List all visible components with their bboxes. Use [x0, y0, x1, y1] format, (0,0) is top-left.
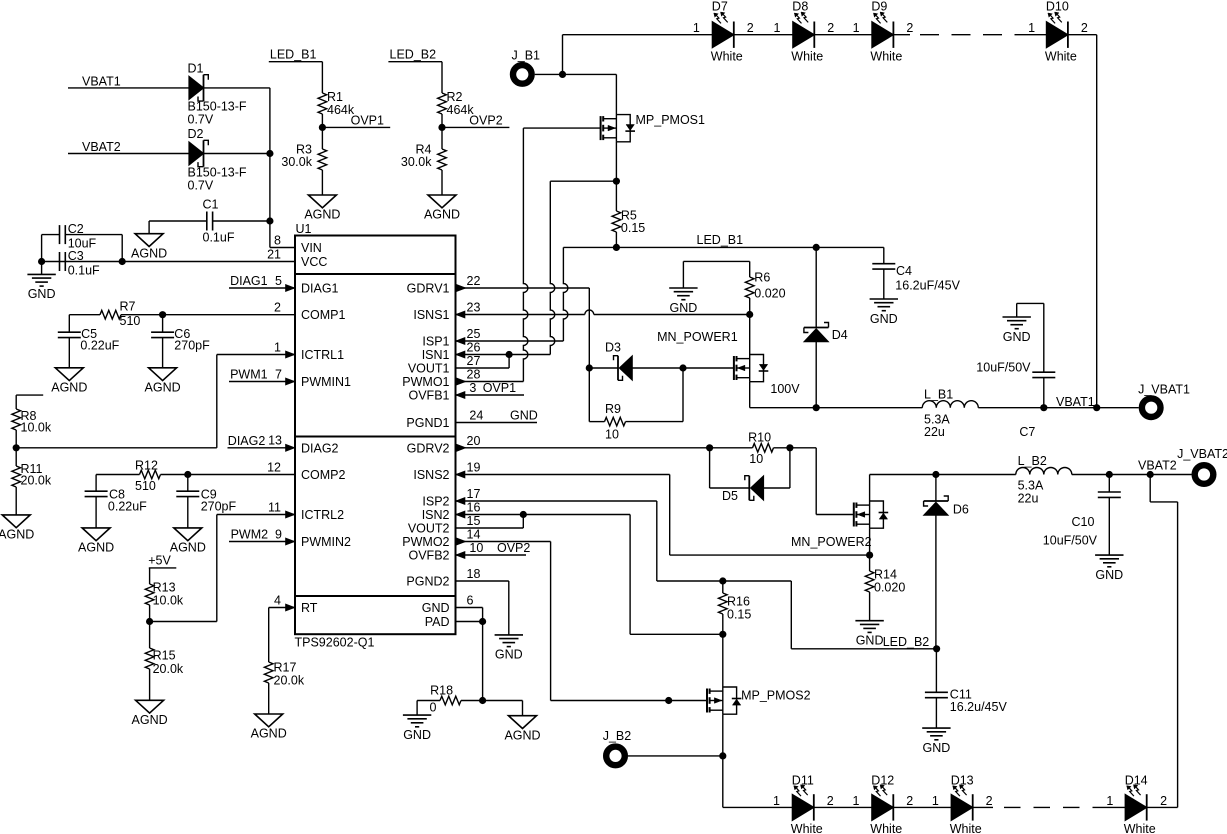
svg-text:24: 24 [469, 409, 483, 423]
junction MP_PMOS2 gate node [665, 697, 672, 704]
svg-text:1: 1 [274, 341, 281, 355]
transistor MN_POWER2 [853, 503, 855, 527]
svg-text:16.2u/45V: 16.2u/45V [950, 700, 1008, 714]
svg-text:VBAT1: VBAT1 [1056, 395, 1095, 409]
U1 input pin arrows left side [286, 284, 296, 291]
junction VBAT1 node [1093, 404, 1100, 411]
svg-text:GND: GND [856, 634, 884, 648]
dashed wire LED string 1 [920, 34, 1026, 36]
svg-text:PGND2: PGND2 [406, 575, 449, 589]
svg-text:AGND: AGND [0, 528, 34, 542]
svg-text:J_VBAT1: J_VBAT1 [1138, 383, 1190, 397]
svg-text:VOUT2: VOUT2 [408, 522, 450, 536]
wire VOUT1 [456, 367, 510, 369]
svg-text:AGND: AGND [145, 380, 181, 394]
svg-text:White: White [1045, 50, 1077, 64]
wire ICTRL1 [217, 354, 295, 356]
svg-text:R2: R2 [447, 90, 463, 104]
svg-text:6: 6 [467, 594, 474, 608]
svg-text:D10: D10 [1046, 0, 1069, 14]
svg-text:PWMO2: PWMO2 [402, 535, 449, 549]
svg-text:2: 2 [827, 794, 834, 808]
svg-text:0.22uF: 0.22uF [80, 339, 119, 353]
junction R13/R15 [146, 618, 153, 625]
svg-text:R10: R10 [748, 430, 771, 444]
resistor R3 [321, 127, 323, 149]
svg-text:PWMO1: PWMO1 [402, 375, 449, 389]
transistor MP_PMOS2 [706, 689, 708, 713]
junction VBAT2 node [1147, 471, 1154, 478]
wire R12 to COMP2 pin [161, 474, 296, 476]
LED D12 [872, 794, 894, 820]
resistor R18 [417, 700, 440, 702]
connector J_VBAT1 [1142, 398, 1161, 417]
svg-text:OVP1: OVP1 [483, 381, 516, 395]
svg-text:0.15: 0.15 [621, 221, 645, 235]
diode D4 [804, 327, 829, 329]
wire PAD to R18 node [482, 622, 484, 701]
svg-text:1: 1 [932, 794, 939, 808]
connector J_B2 [606, 747, 625, 766]
svg-text:ICTRL1: ICTRL1 [301, 348, 344, 362]
wire D3 cathode [589, 367, 618, 369]
svg-text:GND: GND [1095, 568, 1123, 582]
capacitor C10 [1108, 475, 1110, 493]
svg-text:PAD: PAD [425, 615, 450, 629]
svg-text:D1: D1 [188, 62, 204, 76]
transistor MN_POWER1 [733, 356, 735, 380]
svg-text:0.020: 0.020 [754, 287, 785, 301]
inductor L_B2 [936, 474, 1016, 476]
wire VBAT2 to LED string 2 return [1149, 475, 1151, 502]
junction source / R14 / ISNS2 [866, 552, 873, 559]
GND symbol at C4 [870, 298, 898, 300]
wire COMP2 left [96, 474, 139, 476]
junction R8/R11 [13, 444, 20, 451]
LED D10 [1046, 22, 1068, 48]
svg-text:PWMIN1: PWMIN1 [301, 375, 351, 389]
svg-text:510: 510 [135, 479, 156, 493]
LED D9 [872, 22, 894, 48]
AGND symbol at R15 [136, 700, 164, 713]
svg-text:0.1uF: 0.1uF [68, 264, 100, 278]
AGND symbol near PAD [509, 716, 537, 729]
svg-text:AGND: AGND [170, 541, 206, 555]
resistor R8 top stub [16, 394, 43, 396]
svg-text:VOUT1: VOUT1 [408, 362, 450, 376]
capacitor C11 [925, 691, 948, 693]
svg-text:B150-13-F: B150-13-F [188, 166, 247, 180]
svg-text:19: 19 [467, 461, 481, 475]
wire ISN2 to R16 bottom [629, 515, 631, 635]
svg-text:OVP1: OVP1 [351, 114, 384, 128]
capacitor C4 [883, 247, 885, 263]
transistor MP_PMOS1 [600, 116, 602, 140]
GND symbol at R6 [669, 287, 697, 289]
wire ICTRL2 [217, 514, 295, 516]
diode D3 [617, 356, 619, 381]
svg-text:30.0k: 30.0k [401, 155, 432, 169]
svg-text:LED_B2: LED_B2 [390, 48, 437, 62]
AGND symbol at C5 [55, 368, 83, 381]
resistor R9 [589, 421, 604, 423]
svg-text:22: 22 [467, 274, 481, 288]
svg-text:C7: C7 [1019, 425, 1035, 439]
svg-text:AGND: AGND [251, 727, 287, 741]
svg-text:100V: 100V [770, 382, 800, 396]
junction J_B2 node [719, 752, 726, 759]
wire ISNS2 [456, 474, 670, 476]
svg-text:2: 2 [986, 794, 993, 808]
LED D8 [793, 22, 815, 48]
svg-text:White: White [870, 50, 902, 64]
svg-text:PWM1: PWM1 [230, 368, 268, 382]
svg-text:26: 26 [467, 341, 481, 355]
GND symbol at C7 [1003, 316, 1031, 318]
svg-text:J_B2: J_B2 [603, 729, 632, 743]
GND symbol at R14 [855, 620, 883, 622]
svg-text:PWMIN2: PWMIN2 [301, 535, 351, 549]
wire R18 node to AGND [483, 700, 523, 702]
svg-text:LED_B1: LED_B1 [270, 48, 317, 62]
svg-text:0.7V: 0.7V [188, 113, 214, 127]
svg-text:RT: RT [301, 601, 318, 615]
svg-text:C4: C4 [896, 264, 912, 278]
diode D5 [748, 476, 750, 501]
wire LED_B2 net [723, 580, 792, 582]
capacitor C8 [95, 475, 97, 492]
junction R10 left [706, 444, 713, 451]
svg-text:VBAT2: VBAT2 [1138, 459, 1177, 473]
junction ISNS1 / R6 / drain [746, 311, 753, 318]
svg-text:DIAG1: DIAG1 [230, 274, 268, 288]
svg-text:13: 13 [268, 434, 282, 448]
svg-text:20.0k: 20.0k [274, 674, 305, 688]
svg-text:ISP1: ISP1 [422, 335, 449, 349]
svg-text:AGND: AGND [132, 713, 168, 727]
diode D6 [924, 500, 949, 502]
wire GND pin 6 [456, 607, 483, 609]
svg-text:GND: GND [510, 409, 538, 423]
svg-text:2: 2 [906, 21, 913, 35]
LED D14 [1125, 794, 1147, 820]
svg-text:GND: GND [422, 601, 450, 615]
svg-text:MN_POWER1: MN_POWER1 [657, 330, 738, 344]
svg-text:20.0k: 20.0k [21, 474, 52, 488]
wire D4 cathode to LED_B1 [815, 247, 817, 327]
svg-text:White: White [791, 50, 823, 64]
junction switch node / D4 [813, 404, 820, 411]
svg-text:ISNS2: ISNS2 [413, 468, 449, 482]
net label OVP2 at OVFB2 [456, 554, 527, 556]
svg-text:14: 14 [467, 528, 481, 542]
svg-text:9: 9 [275, 527, 282, 541]
resistor R11 [15, 448, 17, 466]
wire J_B1 node to LED string [562, 35, 564, 75]
AGND symbol at R11 [2, 515, 30, 528]
svg-text:1: 1 [853, 21, 860, 35]
svg-text:10: 10 [469, 541, 483, 555]
svg-text:30.0k: 30.0k [281, 155, 312, 169]
resistor R7 [100, 310, 121, 319]
diode D2 [189, 142, 204, 165]
svg-text:0.15: 0.15 [727, 608, 751, 622]
wire D5 loop [709, 448, 711, 488]
svg-text:D4: D4 [832, 328, 848, 342]
wire GDRV1 riser to R9/D3 [588, 288, 590, 422]
svg-text:28: 28 [467, 368, 481, 382]
junction C7 [1040, 404, 1047, 411]
svg-text:White: White [870, 822, 902, 834]
capacitor C2 [59, 225, 61, 244]
wire D12 to D13 [893, 806, 951, 808]
svg-text:VBAT1: VBAT1 [82, 74, 121, 88]
svg-text:L_B2: L_B2 [1018, 454, 1047, 468]
svg-text:AGND: AGND [504, 728, 540, 742]
svg-text:0.020: 0.020 [874, 581, 905, 595]
wire MP_PMOS1 drain to R5 [615, 142, 617, 181]
svg-text:5: 5 [275, 274, 282, 288]
AGND symbol at C8 [82, 528, 110, 541]
svg-text:18: 18 [467, 567, 481, 581]
wire PWMO1 riser to MP_PMOS1 gate [523, 128, 528, 381]
svg-text:U1: U1 [296, 222, 312, 236]
svg-text:GDRV1: GDRV1 [407, 282, 450, 296]
wire LED string 1 return [1096, 35, 1098, 408]
wire D2 cathode to VIN rail [204, 153, 270, 155]
svg-text:2: 2 [1160, 794, 1167, 808]
junction VIN rail / C1 [266, 217, 273, 224]
svg-text:10: 10 [749, 452, 763, 466]
net label GND at PGND1 [456, 422, 538, 424]
svg-text:2: 2 [827, 21, 834, 35]
svg-text:1: 1 [1106, 794, 1113, 808]
svg-text:PWM2: PWM2 [231, 528, 269, 542]
svg-text:10.0k: 10.0k [153, 593, 184, 607]
GND symbol at C10 [1095, 554, 1123, 556]
svg-text:0.22uF: 0.22uF [108, 500, 147, 514]
resistor R15 [149, 622, 151, 649]
svg-text:R9: R9 [605, 402, 621, 416]
svg-text:GND: GND [1003, 330, 1031, 344]
svg-text:OVFB1: OVFB1 [409, 389, 450, 403]
svg-text:2: 2 [274, 301, 281, 315]
wire net LED_B1 [563, 246, 883, 248]
svg-text:0.1uF: 0.1uF [203, 231, 235, 245]
LED D13 [951, 794, 973, 820]
wire D9 to dashes [893, 34, 910, 36]
resistor R10 [753, 444, 774, 453]
svg-text:R1: R1 [327, 90, 343, 104]
svg-text:COMP1: COMP1 [301, 308, 346, 322]
wire gate node to MP_PMOS2 [669, 700, 707, 702]
svg-text:1: 1 [1028, 21, 1035, 35]
wire DIAG2 net to ICTRL1 [16, 447, 217, 449]
AGND symbol at R17 [255, 714, 283, 727]
junction C3 right / VCC [119, 258, 126, 265]
svg-text:R18: R18 [430, 684, 453, 698]
wire MP_PMOS1 gate [523, 127, 600, 129]
svg-text:ISNS1: ISNS1 [413, 308, 449, 322]
svg-text:OVP2: OVP2 [497, 541, 530, 555]
svg-text:D7: D7 [712, 0, 728, 14]
AGND symbol at R4 [428, 195, 456, 208]
wire C7 to GND [1017, 302, 1044, 304]
svg-text:White: White [950, 822, 982, 834]
resistor R1 [321, 62, 323, 93]
wire ISP1 riser to LED_B1 [563, 247, 568, 341]
net label OVP2 stub [442, 126, 509, 128]
svg-text:COMP2: COMP2 [301, 468, 346, 482]
svg-text:15: 15 [467, 514, 481, 528]
wire C1 right to VIN rail [213, 220, 270, 222]
svg-text:R14: R14 [874, 567, 897, 581]
svg-text:16: 16 [467, 501, 481, 515]
svg-text:10uF/50V: 10uF/50V [1043, 533, 1098, 547]
wire J_B2 to node [628, 755, 723, 757]
wire D11 to D12 [814, 806, 872, 808]
svg-text:20: 20 [467, 434, 481, 448]
svg-text:10: 10 [605, 428, 619, 442]
wire LED string 1 top [563, 34, 713, 36]
wire D1 cathode to VIN rail [204, 87, 270, 89]
wire R18 to GND [416, 701, 418, 716]
svg-text:R6: R6 [754, 271, 770, 285]
GND symbol at PGND2 [495, 634, 523, 636]
dashed wire LED string 2 [1004, 806, 1098, 808]
svg-text:1: 1 [693, 21, 700, 35]
svg-text:J_B1: J_B1 [512, 48, 541, 62]
capacitor C1 [206, 212, 208, 231]
junction D3 cathode on GDRV1 riser [586, 364, 593, 371]
junction ISN2/VOUT2 [520, 511, 527, 518]
resistor R5 [615, 181, 617, 211]
svg-text:LED_B2: LED_B2 [883, 635, 930, 649]
LED D7 [712, 22, 734, 48]
wire D10 to return [1068, 34, 1097, 36]
wire MN_POWER2 drain to switch node 2 [869, 475, 871, 502]
svg-text:VBAT2: VBAT2 [82, 140, 121, 154]
svg-text:2: 2 [1081, 21, 1088, 35]
svg-text:White: White [711, 50, 743, 64]
wire GDRV1 [456, 287, 590, 289]
svg-text:GDRV2: GDRV2 [407, 441, 450, 455]
junction ISN1/VOUT1 [506, 351, 513, 358]
svg-text:PGND1: PGND1 [406, 416, 449, 430]
inductor L_B1 [816, 407, 922, 409]
capacitor C5 [68, 315, 70, 333]
wire D6 cathode to switch node 2 [935, 475, 937, 502]
AGND symbol at C9 [174, 528, 202, 541]
svg-text:R15: R15 [153, 648, 176, 662]
svg-text:2: 2 [906, 794, 913, 808]
wire J_B1 to PMOS1 [535, 73, 617, 75]
GND symbol at C2/C3 [27, 273, 55, 275]
junction R16 top [719, 577, 726, 584]
svg-text:LED_B1: LED_B1 [697, 233, 744, 247]
svg-text:GND: GND [28, 287, 56, 301]
resistor R12 [140, 470, 161, 479]
wire R10 leads [710, 447, 753, 449]
GND symbol at R18 [403, 714, 431, 716]
wire PWMO2 to MP_PMOS2 gate [456, 541, 551, 543]
svg-text:OVP2: OVP2 [469, 114, 502, 128]
resistor R6 [749, 261, 751, 277]
svg-text:DIAG2: DIAG2 [301, 441, 339, 455]
svg-text:MP_PMOS2: MP_PMOS2 [741, 689, 811, 703]
svg-text:C1: C1 [203, 198, 219, 212]
svg-text:17: 17 [467, 487, 481, 501]
svg-text:AGND: AGND [78, 541, 114, 555]
wire R16 bottom to MP_PMOS2 source [722, 634, 724, 687]
svg-text:ISN2: ISN2 [422, 508, 450, 522]
svg-text:OVFB2: OVFB2 [409, 549, 450, 563]
wire D4 anode to switch node [815, 342, 817, 408]
wire VOUT2 [456, 527, 524, 529]
svg-text:10uF/50V: 10uF/50V [976, 360, 1031, 374]
junction R16 bottom [719, 631, 726, 638]
svg-text:VCC: VCC [301, 255, 327, 269]
IC U1 TPS92602-Q1 body [295, 236, 456, 635]
svg-text:GND: GND [923, 741, 951, 755]
svg-text:C10: C10 [1072, 515, 1095, 529]
capacitor C7 [1032, 371, 1055, 373]
svg-text:GND: GND [495, 648, 523, 662]
svg-text:GND: GND [403, 728, 431, 742]
net label OVP1 stub [322, 126, 390, 128]
wire R9 to gate node [682, 368, 684, 422]
junction R18 node [479, 697, 486, 704]
svg-text:D12: D12 [871, 774, 894, 788]
junction LED_B1 / D4 [813, 244, 820, 251]
svg-text:0.7V: 0.7V [188, 179, 214, 193]
junction switch node 2 / D6 [932, 471, 939, 478]
wire R5 top to ISN1 riser [550, 180, 616, 182]
LED D11 [792, 794, 814, 820]
wire GDRV2 [456, 447, 710, 449]
wire D8 to D9 [814, 34, 872, 36]
svg-text:10.0k: 10.0k [21, 420, 52, 434]
svg-text:AGND: AGND [51, 380, 87, 394]
wire divider to ICTRL2 [150, 621, 217, 623]
resistor R14 [869, 555, 871, 571]
svg-text:8: 8 [274, 234, 281, 248]
svg-text:ICTRL2: ICTRL2 [301, 508, 344, 522]
svg-text:R7: R7 [120, 299, 136, 313]
svg-text:27: 27 [467, 354, 481, 368]
svg-text:D8: D8 [792, 0, 808, 14]
svg-text:21: 21 [267, 248, 281, 262]
wire dashes to D10 [1026, 34, 1046, 36]
svg-text:MP_PMOS1: MP_PMOS1 [636, 113, 706, 127]
wire ISN1 riser to R5 top [550, 181, 555, 354]
svg-text:22u: 22u [924, 425, 945, 439]
svg-text:D11: D11 [792, 774, 814, 788]
resistor R17 [264, 662, 273, 683]
wire C1 left to AGND [149, 220, 207, 222]
capacitor C3 [59, 252, 61, 271]
svg-text:J_VBAT2: J_VBAT2 [1177, 447, 1227, 461]
svg-text:2: 2 [747, 21, 754, 35]
wire C2 right [65, 234, 122, 236]
junction GND/PAD [479, 618, 486, 625]
svg-text:16.2uF/45V: 16.2uF/45V [895, 278, 960, 292]
junction C6 top [159, 311, 166, 318]
junction C9 top [184, 471, 191, 478]
svg-text:R17: R17 [274, 661, 297, 675]
wire PAD pin [456, 621, 483, 623]
wire ISNS1 with hop [456, 314, 585, 316]
